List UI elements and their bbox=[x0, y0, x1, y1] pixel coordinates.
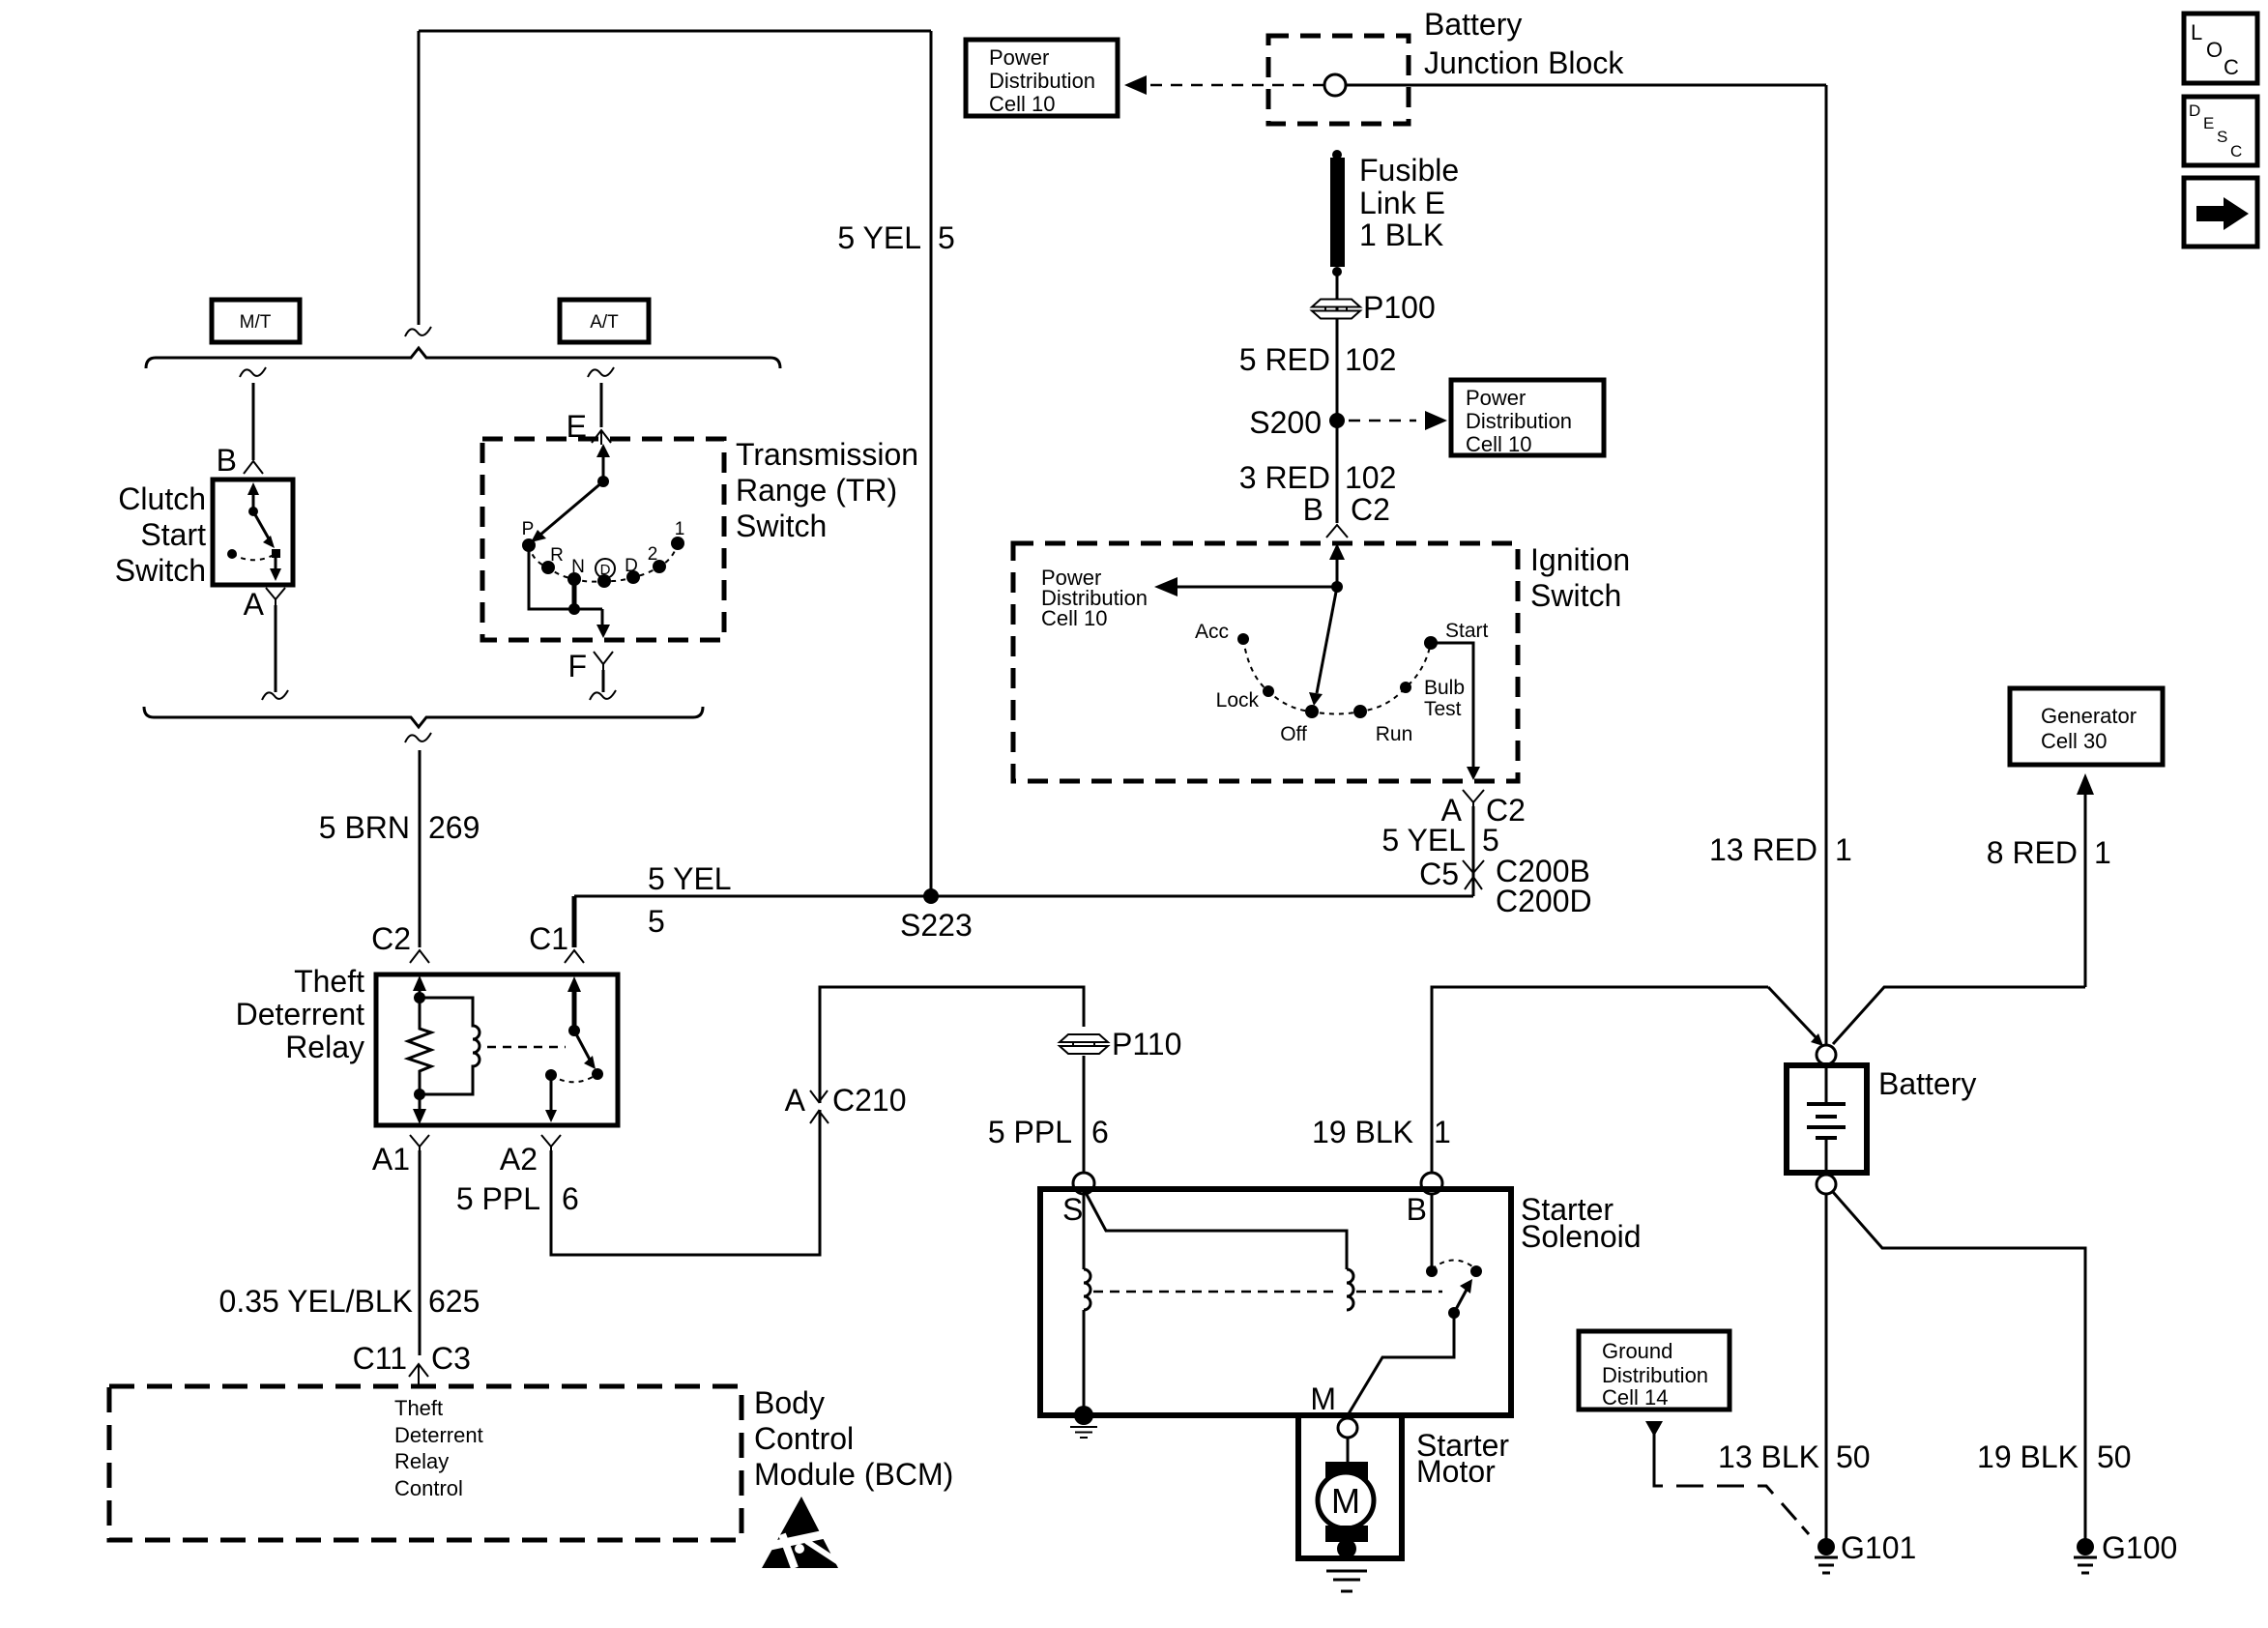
connector F female bbox=[594, 652, 613, 674]
solenoid coil to ground wire bbox=[1083, 1310, 1086, 1415]
relay switch contacts and throw arc bbox=[592, 1068, 603, 1080]
svg-text:Solenoid: Solenoid bbox=[1521, 1219, 1642, 1254]
wire 5 YEL from bus down to C1 bbox=[572, 896, 577, 947]
svg-text:Range (TR): Range (TR) bbox=[736, 473, 897, 508]
wire break squiggle below F bbox=[590, 690, 616, 700]
svg-text:L: L bbox=[2191, 20, 2202, 44]
svg-text:1: 1 bbox=[2094, 835, 2111, 870]
wire vertical branch stem bbox=[418, 31, 421, 325]
svg-text:1: 1 bbox=[675, 519, 685, 539]
TR switch entry arrow bbox=[602, 454, 605, 481]
svg-text:A1: A1 bbox=[372, 1142, 410, 1177]
TR switch exit arrow bbox=[601, 609, 604, 626]
relay lower arrow bbox=[419, 1094, 422, 1112]
TR switch P output wire bbox=[529, 545, 602, 609]
brace bottom bbox=[144, 707, 703, 727]
M/T box bbox=[212, 300, 300, 342]
svg-text:C210: C210 bbox=[832, 1083, 907, 1118]
svg-text:Relay: Relay bbox=[394, 1449, 449, 1473]
starter motor enclosure bbox=[1298, 1415, 1402, 1558]
svg-text:102: 102 bbox=[1345, 460, 1396, 495]
relay coil bbox=[420, 998, 480, 1094]
svg-text:Off: Off bbox=[1280, 723, 1307, 745]
ground G101 bbox=[1817, 1538, 1835, 1555]
battery box bbox=[1787, 1065, 1867, 1173]
svg-text:5 YEL: 5 YEL bbox=[1381, 823, 1466, 858]
svg-text:1 BLK: 1 BLK bbox=[1359, 218, 1443, 252]
svg-text:50: 50 bbox=[1836, 1439, 1871, 1474]
svg-text:Start: Start bbox=[140, 517, 206, 552]
svg-text:Power: Power bbox=[1466, 386, 1526, 410]
svg-text:Fusible: Fusible bbox=[1359, 153, 1459, 188]
TR switch arc bbox=[529, 543, 678, 582]
next page arrow box bbox=[2184, 178, 2257, 247]
connector C2 female bbox=[410, 950, 429, 963]
relay output arrow bbox=[550, 1077, 553, 1112]
svg-text:N: N bbox=[571, 557, 585, 577]
svg-text:Module (BCM): Module (BCM) bbox=[754, 1457, 953, 1492]
wire fusible link to ignition switch bbox=[1336, 276, 1339, 523]
svg-text:Start: Start bbox=[1445, 620, 1489, 642]
svg-text:5 YEL: 5 YEL bbox=[837, 220, 921, 255]
transmission range switch dashed box bbox=[482, 439, 724, 640]
svg-text:C11: C11 bbox=[353, 1341, 407, 1376]
svg-text:Relay: Relay bbox=[285, 1030, 364, 1064]
ignition entry arrow bbox=[1336, 551, 1339, 587]
clutch switch contact arm bbox=[252, 491, 255, 511]
connector C1 female bbox=[565, 950, 584, 963]
relay switch entry arrow up bbox=[572, 988, 577, 1031]
svg-text:Deterrent: Deterrent bbox=[394, 1423, 483, 1447]
relay actuation dashed link bbox=[487, 1046, 566, 1049]
svg-text:C200D: C200D bbox=[1496, 884, 1592, 918]
ignition start output bbox=[1437, 643, 1473, 768]
wire generator merge diagonal bbox=[1833, 987, 2085, 1044]
solenoid pull-in coil bbox=[1347, 1269, 1353, 1310]
svg-text:P110: P110 bbox=[1112, 1027, 1181, 1061]
svg-text:Cell 10: Cell 10 bbox=[989, 92, 1055, 116]
wire A2 to C210 riser bbox=[551, 987, 1084, 1255]
svg-text:S223: S223 bbox=[900, 908, 973, 943]
ignition feed arrow to power distribution bbox=[1171, 586, 1337, 589]
svg-text:S200: S200 bbox=[1249, 405, 1322, 440]
svg-text:Bulb: Bulb bbox=[1424, 677, 1465, 699]
relay switch blade bbox=[574, 1031, 590, 1060]
svg-text:Distribution: Distribution bbox=[1466, 409, 1572, 433]
junction block terminal circle bbox=[1324, 74, 1346, 96]
svg-text:6: 6 bbox=[562, 1181, 579, 1216]
svg-text:C3: C3 bbox=[431, 1341, 471, 1376]
solenoid hold-in coil bbox=[1084, 1269, 1090, 1310]
svg-text:C2: C2 bbox=[371, 921, 411, 956]
svg-text:Deterrent: Deterrent bbox=[236, 997, 365, 1032]
TR switch rotor arm bbox=[597, 476, 609, 487]
connector P100 bbox=[1312, 300, 1360, 307]
svg-text:E: E bbox=[2203, 114, 2214, 132]
ignition rotor arrow bbox=[1317, 587, 1337, 693]
svg-text:G100: G100 bbox=[2102, 1530, 2177, 1565]
body control module dashed box bbox=[109, 1386, 741, 1540]
svg-text:6: 6 bbox=[1091, 1115, 1109, 1149]
wire 5 BRN down to relay bbox=[419, 750, 422, 947]
svg-text:O: O bbox=[2206, 38, 2223, 62]
wire A/T branch bbox=[600, 383, 603, 427]
svg-text:Control: Control bbox=[754, 1421, 854, 1456]
dashed arrow to power distribution bbox=[1143, 84, 1324, 87]
svg-text:A: A bbox=[244, 587, 265, 622]
svg-text:Theft: Theft bbox=[394, 1396, 443, 1420]
clutch switch contacts and throw arc bbox=[272, 549, 280, 558]
svg-text:1: 1 bbox=[1835, 832, 1852, 867]
svg-text:A/T: A/T bbox=[590, 312, 619, 333]
svg-text:Body: Body bbox=[754, 1385, 825, 1420]
svg-text:Theft: Theft bbox=[294, 964, 364, 999]
svg-text:G101: G101 bbox=[1841, 1530, 1916, 1565]
A/T box bbox=[560, 300, 649, 342]
svg-text:625: 625 bbox=[428, 1284, 480, 1319]
solenoid left winding wire bbox=[1083, 1189, 1086, 1269]
svg-text:A2: A2 bbox=[500, 1142, 538, 1177]
svg-text:5 BRN: 5 BRN bbox=[319, 810, 410, 845]
svg-text:Distribution: Distribution bbox=[989, 69, 1095, 93]
connector E male bbox=[592, 430, 611, 445]
wire break squiggle M/T branch bbox=[240, 367, 266, 377]
svg-text:D: D bbox=[2189, 102, 2200, 120]
wire solenoid B merge diagonal bbox=[1768, 987, 1818, 1040]
ground G100 bbox=[2077, 1538, 2094, 1555]
connector P110 bbox=[1060, 1034, 1108, 1042]
svg-text:19 BLK: 19 BLK bbox=[1312, 1115, 1413, 1149]
wire F to brace bbox=[602, 670, 605, 692]
TR switch N tap thick bbox=[572, 579, 577, 609]
power distribution cell 10 box mid bbox=[1451, 380, 1604, 455]
svg-text:M/T: M/T bbox=[240, 312, 272, 333]
svg-text:B: B bbox=[1407, 1192, 1427, 1227]
solenoid contact to M linkage bbox=[1348, 1313, 1454, 1415]
svg-text:5 PPL: 5 PPL bbox=[456, 1181, 540, 1216]
svg-text:19 BLK: 19 BLK bbox=[1977, 1439, 2079, 1474]
ignition position dots bbox=[1237, 633, 1249, 645]
svg-text:Generator: Generator bbox=[2041, 704, 2137, 728]
svg-text:D: D bbox=[600, 562, 611, 578]
svg-text:Transmission: Transmission bbox=[736, 437, 918, 472]
svg-text:C2: C2 bbox=[1351, 492, 1390, 527]
svg-text:5: 5 bbox=[1482, 823, 1499, 858]
svg-text:Cell 14: Cell 14 bbox=[1602, 1385, 1668, 1410]
svg-text:S: S bbox=[2217, 128, 2227, 146]
wire A1 to BCM bbox=[419, 1150, 422, 1355]
solenoid ground bbox=[1074, 1406, 1093, 1425]
svg-text:3 RED: 3 RED bbox=[1239, 460, 1330, 495]
svg-text:0.35 YEL/BLK: 0.35 YEL/BLK bbox=[219, 1284, 413, 1319]
dashed arrow S200 to power distribution bbox=[1349, 420, 1416, 422]
starter solenoid box bbox=[1040, 1189, 1511, 1415]
connector B female bbox=[244, 461, 263, 474]
wire ignition A to C5 bbox=[1472, 806, 1475, 896]
battery positive terminal bbox=[1817, 1045, 1836, 1064]
svg-text:Switch: Switch bbox=[115, 553, 206, 588]
theft deterrent relay box bbox=[376, 974, 618, 1125]
svg-text:269: 269 bbox=[428, 810, 480, 845]
clutch start switch box bbox=[213, 480, 293, 585]
svg-text:Acc: Acc bbox=[1195, 621, 1229, 643]
wire break squiggle A/T branch bbox=[588, 367, 614, 377]
clutch switch lower arm bbox=[275, 558, 277, 572]
svg-text:B: B bbox=[217, 443, 237, 478]
ground distribution cell 14 box bbox=[1579, 1331, 1730, 1410]
svg-text:Switch: Switch bbox=[736, 509, 827, 543]
svg-text:M: M bbox=[1331, 1481, 1360, 1521]
wire P110 to starter solenoid S bbox=[1083, 1056, 1086, 1173]
wire break squiggle below brace bbox=[405, 733, 431, 742]
terminal S circle bbox=[1073, 1173, 1094, 1194]
svg-text:Distribution: Distribution bbox=[1602, 1363, 1708, 1387]
svg-text:Cell 10: Cell 10 bbox=[1466, 432, 1531, 456]
ignition detent arc bbox=[1243, 639, 1431, 714]
svg-text:Test: Test bbox=[1424, 698, 1462, 720]
svg-text:13 BLK: 13 BLK bbox=[1718, 1439, 1819, 1474]
starter motor symbol bbox=[1347, 1438, 1350, 1464]
solenoid B contact wire bbox=[1431, 1194, 1434, 1266]
wire clutch to brace bbox=[275, 605, 277, 692]
svg-text:M: M bbox=[1310, 1381, 1336, 1416]
wire top horizontal from M/T-A/T branch to 5 YEL drop bbox=[419, 30, 931, 33]
svg-text:Cell 10: Cell 10 bbox=[1041, 606, 1107, 630]
relay resistor bbox=[408, 998, 431, 1094]
solenoid contact throw arc bbox=[1432, 1261, 1476, 1270]
svg-text:5 PPL: 5 PPL bbox=[988, 1115, 1072, 1149]
relay coil entry arrow down bbox=[419, 990, 422, 998]
svg-text:Switch: Switch bbox=[1530, 578, 1621, 613]
svg-text:C: C bbox=[2224, 55, 2239, 79]
terminal B circle bbox=[1421, 1173, 1442, 1194]
svg-text:1: 1 bbox=[1434, 1115, 1451, 1149]
wire junction block to battery drop bbox=[1346, 84, 1826, 87]
ignition switch dashed box bbox=[1013, 543, 1518, 781]
svg-text:C1: C1 bbox=[529, 921, 568, 956]
svg-text:Ignition: Ignition bbox=[1530, 542, 1630, 577]
power distribution cell 10 box top bbox=[966, 40, 1118, 116]
svg-text:Clutch: Clutch bbox=[118, 481, 206, 516]
wire battery feed drop bbox=[1825, 85, 1828, 1045]
circled D drive symbol bbox=[596, 559, 615, 578]
svg-text:Power: Power bbox=[989, 45, 1049, 70]
svg-text:Motor: Motor bbox=[1416, 1454, 1496, 1489]
wire battery negative branch to G100 bbox=[1833, 1192, 2085, 1547]
svg-text:5: 5 bbox=[648, 904, 665, 939]
svg-text:2: 2 bbox=[648, 544, 658, 565]
starter motor ground bbox=[1337, 1539, 1356, 1558]
svg-text:D: D bbox=[625, 556, 638, 576]
svg-text:13 RED: 13 RED bbox=[1709, 832, 1817, 867]
wire battery to G101 bbox=[1825, 1194, 1828, 1547]
svg-text:Run: Run bbox=[1376, 723, 1413, 745]
wire 8 RED to generator arrow bbox=[2084, 791, 2087, 987]
svg-text:Lock: Lock bbox=[1216, 689, 1260, 712]
svg-text:8 RED: 8 RED bbox=[1987, 835, 2078, 870]
svg-text:Cell 30: Cell 30 bbox=[2041, 729, 2107, 753]
terminal M circle bbox=[1338, 1418, 1357, 1438]
ground distribution dashed pointer bbox=[1645, 1421, 1663, 1437]
solenoid S branch bbox=[1084, 1189, 1347, 1269]
fusible link E bbox=[1332, 150, 1342, 160]
svg-text:50: 50 bbox=[2097, 1439, 2132, 1474]
wire battery to starter solenoid B bbox=[1432, 987, 1768, 1173]
svg-text:Battery: Battery bbox=[1424, 7, 1522, 42]
svg-text:R: R bbox=[550, 545, 564, 566]
battery cell symbol bbox=[1825, 1065, 1828, 1106]
wire break squiggle below clutch bbox=[262, 690, 288, 700]
wire 5 YEL bus bbox=[574, 895, 1473, 898]
solenoid moving contact arrow bbox=[1448, 1307, 1460, 1319]
svg-text:5 RED: 5 RED bbox=[1239, 342, 1330, 377]
wire M/T branch bbox=[252, 383, 255, 460]
svg-text:Battery: Battery bbox=[1878, 1066, 1976, 1101]
svg-text:A: A bbox=[785, 1083, 806, 1118]
splice S223 bbox=[923, 888, 939, 904]
TR switch position dots P R N D D 2 1 bbox=[522, 538, 536, 552]
svg-text:102: 102 bbox=[1345, 342, 1396, 377]
DESC reference box bbox=[2184, 97, 2257, 165]
svg-text:F: F bbox=[567, 649, 587, 683]
svg-text:5: 5 bbox=[938, 220, 955, 255]
generator cell 30 box bbox=[2010, 688, 2163, 765]
battery negative terminal bbox=[1817, 1175, 1836, 1194]
solenoid actuation dashed link bbox=[1093, 1291, 1442, 1294]
svg-text:B: B bbox=[1303, 492, 1323, 527]
brace top bbox=[146, 348, 780, 368]
svg-text:S: S bbox=[1062, 1192, 1083, 1227]
svg-text:Link E: Link E bbox=[1359, 186, 1445, 220]
svg-text:Junction Block: Junction Block bbox=[1424, 45, 1624, 80]
svg-text:P100: P100 bbox=[1363, 290, 1436, 325]
svg-text:C: C bbox=[2230, 142, 2242, 160]
svg-text:P: P bbox=[522, 519, 535, 539]
battery junction block dashed box bbox=[1268, 36, 1409, 124]
svg-text:Control: Control bbox=[394, 1476, 463, 1500]
svg-text:Ground: Ground bbox=[1602, 1339, 1672, 1363]
svg-text:5 YEL: 5 YEL bbox=[648, 861, 732, 896]
LOC reference box bbox=[2184, 14, 2257, 83]
ESD sensitive symbol bbox=[762, 1497, 840, 1568]
wire break squiggle stem bbox=[405, 327, 431, 336]
svg-text:C5: C5 bbox=[1419, 857, 1459, 891]
wire 5 YEL vertical long drop bbox=[930, 31, 933, 896]
